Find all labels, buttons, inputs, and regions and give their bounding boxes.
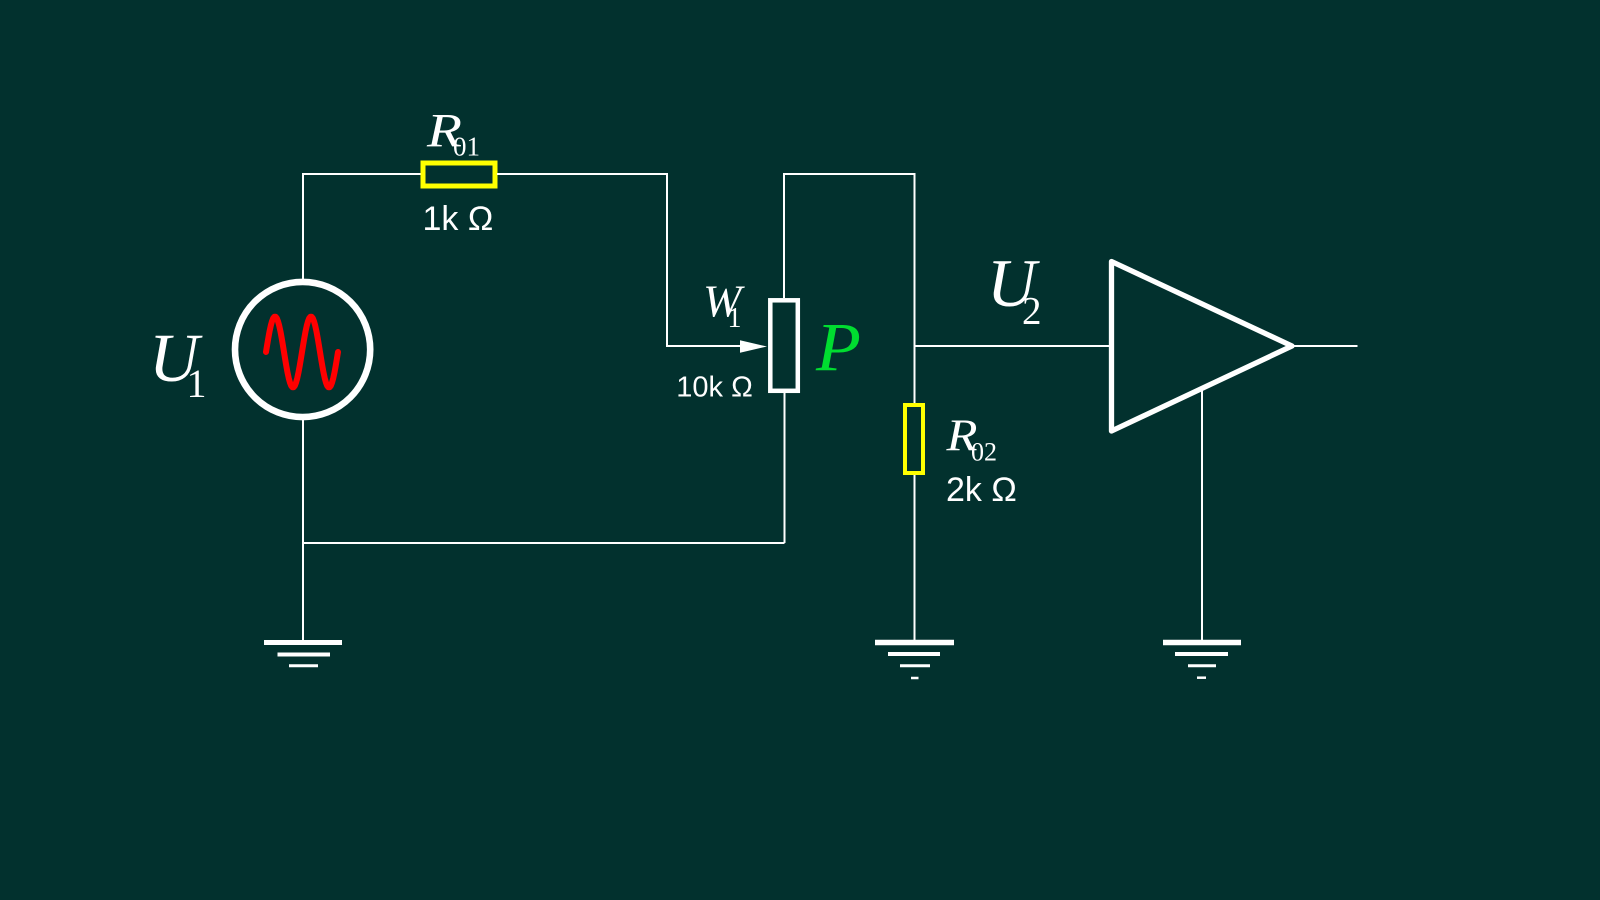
sine wave inside U1: [266, 317, 338, 388]
wire pot bottom stem: [784, 393, 786, 543]
svg-text:1: 1: [187, 361, 207, 406]
ground (R02): [875, 643, 954, 679]
svg-text:P: P: [815, 309, 861, 385]
wire amp output: [1293, 345, 1358, 347]
wire R01 to corner and down to wiper: [497, 174, 742, 346]
wire U1 bottom vertical to ground: [302, 420, 304, 640]
ground (U1): [264, 643, 342, 666]
wire top rail left to R01: [302, 173, 421, 175]
potentiometer P body: [770, 300, 798, 391]
svg-text:01: 01: [453, 132, 480, 162]
svg-text:1: 1: [728, 303, 742, 334]
resistor R01: [423, 163, 495, 186]
wiper arrowhead of W1: [740, 340, 767, 352]
wire U1 top vertical: [302, 174, 304, 279]
wire amp input: [914, 345, 1111, 347]
wire pot top stem and top rail to right vertical: [784, 174, 915, 403]
svg-text:1k Ω: 1k Ω: [423, 200, 494, 238]
svg-text:2: 2: [1022, 290, 1042, 333]
resistor R02: [905, 405, 923, 473]
wire R02 bottom to ground: [914, 475, 916, 640]
svg-text:02: 02: [971, 438, 997, 467]
op-amp triangle: [1112, 262, 1293, 432]
voltage source U1: [235, 282, 370, 417]
svg-text:2k Ω: 2k Ω: [946, 471, 1017, 509]
ground (amp): [1163, 643, 1241, 678]
wire bottom rail: [303, 542, 785, 544]
svg-text:10k Ω: 10k Ω: [676, 371, 753, 403]
wire amp ground stem: [1201, 390, 1203, 640]
